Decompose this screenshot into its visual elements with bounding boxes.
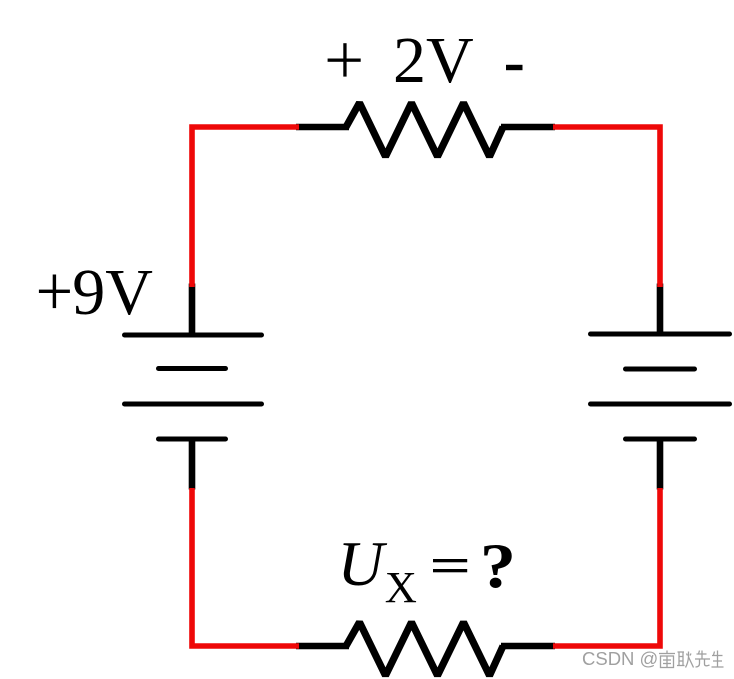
label minus sign of R1 polarity bbox=[506, 65, 523, 70]
battery B2 plate short bottom bbox=[626, 437, 695, 442]
wire right upper black segment bbox=[657, 284, 664, 337]
resistor R1 (top, 2V) bbox=[346, 103, 503, 157]
label equals sign bbox=[433, 559, 467, 572]
battery B2 (right) plate long top bbox=[591, 332, 730, 337]
wire left upper black segment bbox=[189, 284, 196, 337]
wire red top-right elbow bbox=[553, 127, 660, 287]
watermark glyph sheng bbox=[712, 651, 724, 668]
label question mark bbox=[480, 530, 516, 601]
wire bottom-right black segment bbox=[501, 643, 555, 650]
svg-text:2V: 2V bbox=[393, 24, 474, 97]
svg-text:X: X bbox=[385, 562, 417, 612]
watermark glyph nan bbox=[659, 651, 675, 668]
battery B1 plate short upper bbox=[159, 366, 226, 371]
watermark glyph xian bbox=[695, 651, 710, 668]
label 2V value of R1 bbox=[393, 24, 474, 97]
watermark CSDN text bbox=[582, 648, 658, 669]
wire left lower black segment bbox=[189, 439, 196, 490]
wire right lower black segment bbox=[657, 439, 664, 490]
battery B2 plate short upper bbox=[626, 367, 695, 372]
wire red bottom-left elbow bbox=[192, 488, 299, 646]
watermark glyph geng bbox=[677, 652, 694, 668]
label 9V value of source B1 bbox=[72, 256, 153, 329]
svg-text:?: ? bbox=[480, 530, 516, 601]
battery B1 (left, 9V) plate long top bbox=[125, 333, 262, 338]
svg-text:9V: 9V bbox=[72, 256, 153, 329]
wire bottom-left black segment bbox=[296, 643, 349, 650]
wire red bottom-right elbow bbox=[553, 488, 660, 646]
label U of Ux bbox=[338, 528, 388, 599]
label X subscript of Ux bbox=[385, 562, 417, 612]
wire top-left black segment bbox=[296, 124, 349, 131]
wire red top-left elbow bbox=[192, 127, 299, 287]
battery B2 plate long lower bbox=[591, 402, 730, 407]
battery B1 plate long lower bbox=[125, 402, 262, 407]
label plus sign of 9V source bbox=[39, 275, 70, 309]
resistor RX (bottom, Ux) bbox=[346, 622, 503, 675]
wire top-right black segment bbox=[501, 124, 555, 131]
battery B1 plate short bottom bbox=[159, 437, 226, 442]
svg-text:CSDN @: CSDN @ bbox=[582, 648, 658, 669]
label plus sign of R1 polarity bbox=[328, 43, 361, 76]
svg-text:U: U bbox=[338, 528, 388, 599]
